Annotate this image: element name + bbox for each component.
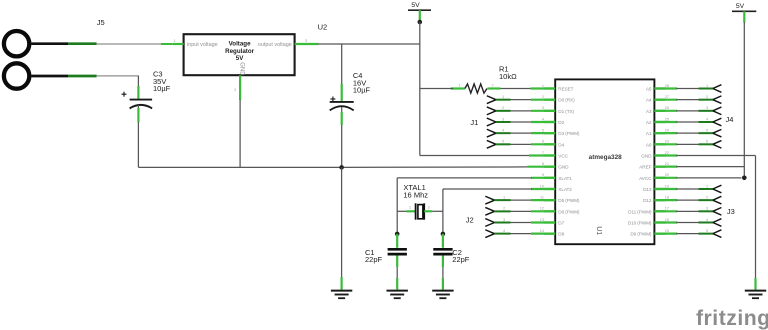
wire ground rail to U1 GND [528, 166, 556, 168]
header J3 pin 5 arrow [713, 230, 722, 238]
svg-text:3: 3 [503, 218, 505, 222]
ground rail wire [138, 166, 341, 168]
header J2 pin 3 arrow [485, 219, 494, 227]
U2 pin 3 output stub [295, 43, 319, 45]
svg-text:16: 16 [665, 218, 669, 222]
header J3 pin 4 arrow [713, 219, 722, 227]
header J4 pin 6 arrow [713, 141, 722, 149]
U2 pin 2 GND stub [239, 75, 241, 100]
svg-text:12: 12 [540, 207, 544, 211]
svg-text:1: 1 [173, 39, 175, 43]
U1 pin 18 stub (D12) [654, 199, 665, 201]
wire J1 pin 4 to U1 [496, 132, 511, 134]
wire U1 to J4 pin 4 [654, 121, 677, 123]
U1 pin 2 stub (D0 (RX)) [544, 99, 555, 101]
header J2 pin 1 arrow [485, 196, 494, 204]
svg-text:3: 3 [305, 39, 307, 43]
svg-text:input voltage: input voltage [187, 42, 218, 48]
svg-text:4: 4 [706, 218, 708, 222]
svg-text:6: 6 [706, 140, 708, 144]
wire C1 to ground [396, 267, 398, 278]
junction XLAT2-C2 [441, 232, 446, 237]
svg-text:9: 9 [542, 173, 544, 177]
U1 pin 27 stub (A4) [654, 99, 665, 101]
svg-text:fritzing: fritzing [696, 307, 768, 330]
U1 pin 16 stub (D10 (PWM)) [654, 221, 665, 223]
svg-text:21: 21 [665, 162, 669, 166]
svg-text:15: 15 [665, 229, 669, 233]
header J3 pin 3 arrow [713, 208, 722, 216]
wire 5V vertical [419, 22, 421, 89]
svg-text:5: 5 [706, 229, 708, 233]
wire U2 output to 5V node [318, 43, 421, 45]
header J4 pin 1 arrow [713, 85, 722, 93]
header J4 pin 4 arrow [713, 118, 722, 126]
svg-text:10: 10 [540, 184, 544, 188]
connector J5 pin 2 ring [4, 63, 29, 88]
U1 pin 8 stub (GND) [544, 166, 555, 168]
U1 pin 1 stub (RESET) [544, 87, 555, 89]
U1 pin 12 stub (D6 (PWM)) [544, 210, 555, 212]
connector J5 pin 1 lead [31, 42, 68, 45]
svg-text:GND: GND [558, 165, 569, 170]
capacitor C2 top lead [442, 234, 444, 248]
svg-text:D13: D13 [643, 187, 652, 192]
resistor R1 pin 1 stub [453, 87, 465, 89]
resistor R1 pin 2 stub [488, 87, 501, 89]
svg-text:RESET: RESET [558, 87, 573, 92]
capacitor C4 plus sign [330, 98, 335, 100]
wire J2 pin 1 to U1 [494, 199, 510, 201]
U2 pin 1 input stub [173, 43, 184, 45]
wire U1 AREF to 5V rail [654, 166, 677, 168]
U1 pin 20 stub (AVCC) [654, 177, 665, 179]
capacitor C3 bottom lead [137, 105, 139, 108]
svg-text:23: 23 [665, 140, 669, 144]
svg-text:J4: J4 [726, 115, 734, 124]
svg-text:5V: 5V [736, 3, 745, 10]
wire J1 pin 5 to U1 [496, 143, 511, 145]
wire C3 to ground rail [137, 122, 139, 167]
wire C4 to ground rail [341, 125, 343, 168]
wire U2 GND to ground rail [239, 100, 241, 168]
header J1 pin 5 arrow [487, 140, 496, 148]
svg-text:2: 2 [503, 207, 505, 211]
U1 pin 13 stub (D7) [544, 221, 555, 223]
wire U1 XLAT2 to crystal [531, 188, 555, 190]
wire U1 to J3 pin 4 [654, 221, 677, 223]
header J1 pin 2 arrow [487, 107, 496, 115]
svg-text:D1 (TX): D1 (TX) [558, 109, 574, 114]
header J1 pin 4 arrow [487, 129, 496, 137]
header J2 pin 2 arrow [485, 207, 494, 215]
capacitor C3 plates [130, 99, 153, 101]
svg-text:10kΩ: 10kΩ [499, 72, 517, 81]
connector J5 pin 1 ring [4, 31, 29, 56]
svg-text:XLAT2: XLAT2 [558, 187, 572, 192]
svg-text:D4: D4 [558, 142, 564, 147]
wire J2 pin 4 to U1 [494, 233, 510, 235]
svg-text:D9 (PWM): D9 (PWM) [630, 232, 652, 237]
svg-text:2: 2 [542, 95, 544, 99]
svg-text:1: 1 [502, 95, 504, 99]
svg-text:1: 1 [458, 84, 460, 88]
svg-text:22: 22 [665, 151, 669, 155]
svg-text:5: 5 [542, 129, 544, 133]
svg-text:J1: J1 [470, 118, 478, 127]
svg-text:14: 14 [540, 229, 544, 233]
svg-text:24: 24 [665, 129, 669, 133]
svg-text:J5: J5 [97, 18, 105, 27]
U1 pin 25 stub (A2) [654, 121, 665, 123]
wire J2 pin 3 to U1 [494, 221, 510, 223]
resistor R1 body [465, 84, 487, 93]
svg-text:11: 11 [540, 196, 544, 200]
svg-text:1: 1 [706, 184, 708, 188]
svg-text:5: 5 [706, 129, 708, 133]
svg-text:1: 1 [503, 196, 505, 200]
header J2 pin 4 arrow [485, 230, 494, 238]
wire J5 pin1 to U2 input [97, 43, 162, 45]
svg-text:output voltage: output voltage [258, 42, 292, 48]
wire C4 branch [341, 44, 343, 84]
svg-text:U1: U1 [595, 226, 602, 235]
junction XLAT1-C1 [395, 232, 400, 237]
voltage regulator U2 body [184, 34, 295, 75]
U1 pin 6 stub (D4) [544, 143, 555, 145]
svg-text:3: 3 [542, 106, 544, 110]
U1 pin 14 stub (D8) [544, 232, 555, 234]
svg-text:19: 19 [665, 184, 669, 188]
wire U1 XLAT1 to crystal [531, 177, 555, 179]
capacitor C1 bottom lead [396, 256, 398, 268]
svg-text:8: 8 [542, 162, 544, 166]
svg-text:D12: D12 [643, 198, 652, 203]
U1 pin 17 stub (D11 (PWM)) [654, 210, 665, 212]
svg-text:A5: A5 [646, 87, 652, 92]
wire U1 to J4 pin 3 [654, 110, 677, 112]
svg-text:4: 4 [503, 229, 505, 233]
wire C2 to ground [442, 267, 444, 278]
U1 pin 23 stub (A0) [654, 143, 665, 145]
svg-text:2: 2 [502, 106, 504, 110]
svg-text:2: 2 [491, 84, 493, 88]
svg-text:D6 (PWM): D6 (PWM) [558, 209, 580, 214]
connector J5 pin 2 lead [31, 75, 68, 78]
U1 pin 21 stub (AREF) [654, 166, 665, 168]
wire U1 to J3 pin 5 [654, 233, 677, 235]
header J1 pin 3 arrow [487, 118, 496, 126]
svg-text:D3 (PWM): D3 (PWM) [558, 131, 580, 136]
header J3 pin 1 arrow [713, 185, 722, 193]
svg-text:17: 17 [665, 207, 669, 211]
svg-text:22pF: 22pF [365, 255, 383, 264]
svg-text:3: 3 [502, 117, 504, 121]
svg-text:A4: A4 [646, 98, 652, 103]
U1 pin 24 stub (A1) [654, 132, 665, 134]
svg-text:D2: D2 [558, 120, 564, 125]
wire 5V right vertical [743, 22, 745, 178]
svg-text:18: 18 [665, 196, 669, 200]
svg-text:16 Mhz: 16 Mhz [403, 190, 428, 199]
svg-text:A0: A0 [646, 142, 652, 147]
junction C4-ground rail [339, 165, 344, 170]
svg-text:3: 3 [706, 207, 708, 211]
wire U1 to J4 pin 5 [654, 132, 677, 134]
capacitor C4 bottom lead [341, 107, 343, 112]
svg-text:4: 4 [706, 117, 708, 121]
ground under C2 [432, 289, 453, 298]
U1 pin 28 stub (A5) [654, 87, 665, 89]
wire 5V to U1 VCC [420, 155, 530, 157]
svg-text:A3: A3 [646, 109, 652, 114]
wire R1 to U1 RESET [501, 88, 532, 90]
svg-text:4: 4 [502, 129, 504, 133]
svg-text:J2: J2 [466, 216, 474, 225]
header J4 pin 5 arrow [713, 129, 722, 137]
svg-text:D10 (PWM): D10 (PWM) [628, 220, 652, 225]
svg-text:D5 (PWM): D5 (PWM) [558, 198, 580, 203]
wire U1 to J4 pin 1 [654, 87, 677, 89]
U1 pin 19 stub (D13) [654, 188, 665, 190]
wire U1 to J3 pin 1 [654, 188, 677, 190]
ground right side [745, 289, 766, 298]
svg-text:U2: U2 [318, 23, 328, 32]
svg-text:A2: A2 [646, 120, 652, 125]
U1 pin 26 stub (A3) [654, 110, 665, 112]
svg-text:13: 13 [540, 218, 544, 222]
header J4 pin 2 arrow [713, 96, 722, 104]
wire U1 to J3 pin 3 [654, 210, 677, 212]
wire J1 pin 1 to U1 [496, 99, 511, 101]
svg-text:6: 6 [542, 140, 544, 144]
svg-text:20: 20 [665, 173, 669, 177]
header J4 pin 3 arrow [713, 107, 722, 115]
svg-text:5V: 5V [236, 55, 244, 62]
U1 pin 10 stub (XLAT2) [544, 188, 555, 190]
svg-text:26: 26 [665, 106, 669, 110]
capacitor C4 plates [330, 101, 354, 103]
svg-text:AVCC: AVCC [639, 176, 652, 181]
capacitor C3 top lead [137, 86, 139, 99]
capacitor C4 top lead [341, 84, 343, 101]
svg-text:VCC: VCC [558, 153, 568, 158]
wire U1 to J4 pin 2 [654, 99, 677, 101]
wire J1 pin 3 to U1 [496, 121, 511, 123]
header J1 pin 1 arrow [487, 96, 496, 104]
junction AVCC-5V [742, 176, 747, 181]
svg-text:2: 2 [234, 88, 236, 92]
wire J2 pin 2 to U1 [494, 210, 510, 212]
svg-text:GND: GND [238, 62, 244, 76]
svg-text:D0 (RX): D0 (RX) [558, 98, 575, 103]
U1 pin 22 stub (GND) [654, 154, 665, 156]
capacitor C1 top lead [396, 234, 398, 248]
capacitor C2 plates [433, 248, 452, 251]
svg-text:AREF: AREF [639, 165, 651, 170]
svg-text:A1: A1 [646, 131, 652, 136]
wire U1 AVCC to 5V rail [654, 177, 677, 179]
svg-text:1: 1 [542, 84, 544, 88]
junction 5V left [418, 20, 423, 25]
wire ground rail to ground symbol [341, 167, 343, 278]
svg-text:3: 3 [706, 106, 708, 110]
U1 pin 9 stub (XLAT1) [544, 177, 555, 179]
svg-text:10µF: 10µF [353, 85, 371, 94]
svg-text:GND: GND [641, 153, 652, 158]
U1 pin 11 stub (D5 (PWM)) [544, 199, 555, 201]
header J3 pin 2 arrow [713, 196, 722, 204]
svg-text:J3: J3 [727, 207, 735, 216]
wire J1 pin 2 to U1 [496, 110, 511, 112]
svg-text:28: 28 [665, 84, 669, 88]
svg-text:Voltage: Voltage [229, 41, 251, 48]
svg-text:2: 2 [706, 196, 708, 200]
U1 pin 3 stub (D1 (TX)) [544, 110, 555, 112]
svg-text:27: 27 [665, 95, 669, 99]
op IC U1 atmega328 body [555, 79, 654, 244]
svg-text:D11 (PWM): D11 (PWM) [628, 209, 652, 214]
svg-text:25: 25 [665, 117, 669, 121]
svg-text:D8: D8 [558, 232, 564, 237]
crystal XTAL1 body [397, 210, 407, 212]
svg-text:5: 5 [502, 140, 504, 144]
svg-text:XLAT1: XLAT1 [558, 176, 572, 181]
svg-text:4: 4 [542, 117, 544, 121]
ground under C1 [387, 289, 408, 298]
capacitor C2 bottom lead [442, 256, 444, 268]
svg-text:5V: 5V [411, 2, 420, 9]
svg-text:22pF: 22pF [452, 255, 470, 264]
svg-text:10µF: 10µF [153, 84, 171, 93]
svg-text:7: 7 [542, 151, 544, 155]
ground near C4 rail [331, 289, 352, 298]
wire J5 pin2 to C3 [97, 75, 139, 77]
svg-text:Regulator: Regulator [225, 48, 254, 55]
capacitor C1 plates [388, 248, 407, 251]
svg-text:atmega328: atmega328 [589, 154, 622, 161]
U1 pin 7 stub (VCC) [544, 154, 555, 156]
wire 5V to R1 [420, 88, 453, 90]
U1 pin 15 stub (D9 (PWM)) [654, 232, 665, 234]
svg-text:2: 2 [706, 95, 708, 99]
U1 pin 5 stub (D3 (PWM)) [544, 132, 555, 134]
wire U1 to J4 pin 6 [654, 143, 677, 145]
svg-text:D7: D7 [558, 220, 564, 225]
svg-text:1: 1 [706, 84, 708, 88]
U1 pin 4 stub (D2) [544, 121, 555, 123]
capacitor C3 plus sign [122, 93, 127, 95]
wire U1 to J3 pin 2 [654, 199, 677, 201]
wire U1 GND to ground (right) [654, 154, 677, 156]
